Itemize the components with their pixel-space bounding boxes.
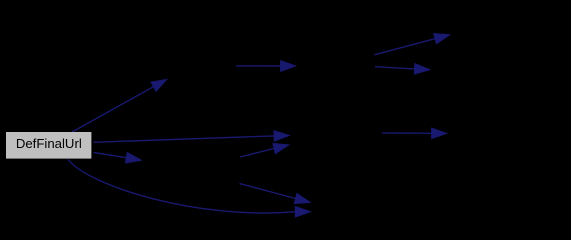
edge nodeB to nodeC (top-right diagonal) (375, 33, 451, 54)
edge nodeE to nodeF (middle-right horizontal) (382, 128, 447, 139)
edge DefFinalUrl to nodeG (short down-right) (94, 152, 142, 163)
node DefFinalUrl (highlighted gray box) (6, 132, 91, 159)
edge DefFinalUrl to nodeA (diagonal up-right) (72, 79, 167, 132)
svg-text:DefFinalUrl: DefFinalUrl (16, 136, 82, 151)
edge DefFinalUrl to nodeE (long middle) (94, 131, 290, 143)
edge DefFinalUrl to nodeH (bottom curve) (68, 160, 311, 218)
edge nodeA to nodeB (top horizontal) (236, 61, 296, 72)
edge nodeG to nodeH (down-right) (240, 184, 311, 204)
edge nodeG to nodeE (up-right) (240, 143, 289, 157)
edge nodeB to nodeD (right horizontal) (375, 64, 430, 75)
